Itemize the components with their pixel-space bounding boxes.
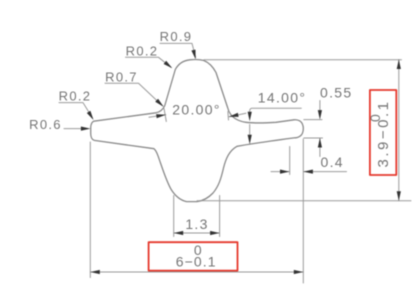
20.00 right flank extension [227, 112, 230, 121]
red tolerance boxes [149, 90, 397, 271]
arrow 20deg right [229, 113, 239, 117]
top extension line [204, 59, 402, 61]
svg-text:20.00°: 20.00° [172, 102, 220, 118]
R0.9 leader [160, 43, 196, 57]
right vertical dimension line (3.9-0.1) [398, 60, 400, 201]
20.00 left arrow leader [149, 115, 166, 118]
1.3 right extension line [219, 196, 221, 237]
14.00 inner segment [249, 125, 251, 137]
arrow R0.7 [155, 99, 163, 107]
dimension texts [29, 29, 352, 232]
0.55 bottom extension line [304, 137, 323, 139]
svg-text:1.3: 1.3 [185, 216, 208, 232]
arrow right-dim bottom [397, 191, 401, 201]
arrow right-dim top [397, 60, 401, 70]
profile outline of cross-section [91, 60, 304, 202]
R0.2 leader left [59, 103, 93, 118]
arrow R0.6 [81, 127, 91, 131]
svg-text:0.4: 0.4 [321, 154, 344, 170]
svg-text:R0.2: R0.2 [59, 89, 92, 104]
bottom datum extension line [197, 200, 411, 202]
R0.7 leader [105, 83, 162, 106]
0.55 lower dim line [319, 138, 321, 157]
bottom dimension line (6-0.1) [90, 271, 303, 273]
svg-text:R0.7: R0.7 [105, 70, 138, 85]
1.3 dimension line [174, 232, 220, 234]
left extension line (6-0.1) [89, 142, 91, 278]
dimension lines [59, 43, 411, 283]
R0.6 leader [64, 128, 88, 130]
arrow R0.9 [191, 50, 195, 60]
svg-text:14.00°: 14.00° [258, 90, 306, 106]
arrow 14deg upper [248, 112, 252, 122]
svg-text:R0.9: R0.9 [160, 29, 193, 44]
20.00 left flank extension [164, 109, 166, 122]
arrow 0.55 upper [318, 110, 322, 120]
arrow R0.2 top [164, 61, 173, 69]
14.00 dim line with hook [250, 108, 302, 113]
svg-text:3.9−0.1: 3.9−0.1 [375, 100, 392, 168]
svg-text:0.55: 0.55 [320, 85, 352, 101]
red box bottom (6-0.1) [149, 242, 238, 270]
arrow 0.4 right [303, 170, 313, 174]
red box right (3.9-0.1) [370, 90, 396, 175]
arrow 1.3 right [210, 231, 220, 235]
right extension line from arm tip (6-0.1 / 0.4) [302, 139, 304, 283]
arrow bottom-dim left [90, 270, 100, 274]
20.00 right arrow leader [229, 113, 246, 117]
arrow 0.4 left [280, 170, 290, 174]
0.4 short extension line [289, 147, 291, 175]
arrow R0.2 left [87, 111, 94, 120]
svg-text:6−0.1: 6−0.1 [176, 254, 217, 270]
0.55 top extension line [304, 119, 322, 121]
1.3 left extension line [173, 196, 175, 237]
arrow 20deg left [156, 114, 166, 118]
0.55 upper dim line [319, 101, 321, 114]
R0.2 leader top [126, 57, 172, 67]
arrow 1.3 left [174, 231, 184, 235]
arrow 14deg lower [248, 135, 252, 145]
arrow 0.55 lower [318, 138, 322, 148]
svg-text:R0.2: R0.2 [126, 44, 159, 59]
0.4 left dim line [271, 171, 289, 173]
arrow bottom-dim right [294, 270, 304, 274]
arrowheads [81, 50, 401, 275]
svg-text:R0.6: R0.6 [29, 117, 62, 132]
0.4 right dim line [304, 171, 347, 173]
